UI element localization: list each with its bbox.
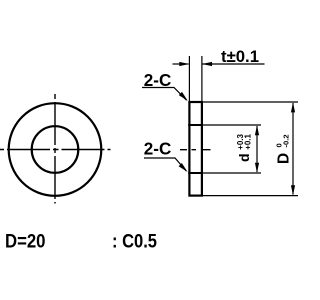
d dimension extension line bottom: [203, 172, 261, 174]
front view inner circle (bore d): [32, 126, 79, 173]
side view bore edge line top: [188, 124, 203, 126]
D dimension extension line top: [203, 101, 298, 103]
t dimension line right tail with arrow: [203, 63, 265, 65]
front view outer circle (diameter D): [9, 103, 102, 196]
side view washer body outline: [189, 102, 202, 196]
svg-text:: C0.5: : C0.5: [112, 232, 157, 253]
front view vertical centerline: [54, 94, 56, 204]
svg-text:+0.1: +0.1: [243, 133, 252, 149]
t dimension extension line left: [188, 56, 190, 103]
svg-text:D=20: D=20: [5, 232, 46, 253]
label d +0.3/+0.1 (rotated): [236, 133, 252, 162]
svg-text:2-C: 2-C: [144, 139, 172, 159]
d dimension line with arrows: [256, 126, 258, 172]
svg-text:-0.2: -0.2: [282, 134, 291, 147]
side view centerline: [180, 149, 211, 151]
svg-text:2-C: 2-C: [144, 70, 172, 90]
front view horizontal centerline: [0, 149, 111, 151]
leader 2-C bottom: [144, 158, 186, 171]
t dimension extension line right: [201, 56, 203, 103]
D dimension line with arrows: [292, 103, 294, 195]
D dimension extension line bottom: [203, 195, 298, 197]
svg-text:t±0.1: t±0.1: [221, 47, 259, 66]
leader 2-C top: [142, 88, 187, 101]
svg-text:D: D: [276, 153, 293, 164]
svg-text:d: d: [236, 153, 252, 162]
d dimension extension line top: [203, 124, 261, 126]
label D 0/-0.2 (rotated): [275, 134, 293, 164]
t dimension line left tail with arrow: [173, 63, 189, 65]
side view bore edge line bottom: [188, 172, 203, 174]
